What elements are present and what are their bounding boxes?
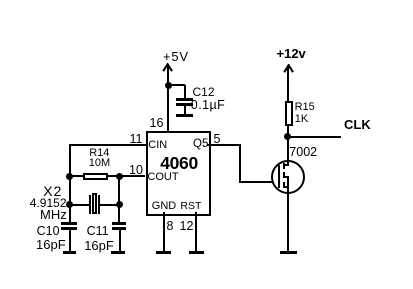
node CLK junction — [284, 133, 291, 140]
pin label COUT — [147, 172, 178, 183]
label 7002 — [289, 146, 317, 159]
pin label CIN — [148, 140, 167, 151]
power label +5V — [163, 50, 189, 63]
pin 5 label — [214, 133, 221, 146]
crystal X2 right plate — [98, 195, 100, 214]
value MHz — [40, 208, 67, 221]
label C11 — [87, 225, 109, 238]
wire crystal row right — [100, 204, 120, 206]
pin 12 label — [180, 220, 194, 233]
resistor R14 — [83, 173, 108, 180]
label C12 — [193, 86, 215, 98]
transistor drain stub — [287, 160, 289, 166]
crystal X2 body — [92, 193, 98, 214]
ground transistor source — [280, 251, 297, 254]
label R15 — [295, 102, 315, 113]
capacitor C12 — [176, 98, 193, 101]
transistor channel bottom dash — [283, 182, 285, 188]
label 4060 — [160, 155, 198, 173]
ground GND pin — [156, 251, 171, 254]
label C10 — [37, 225, 60, 238]
pin label GND — [152, 201, 176, 212]
wire C10 bottom lead — [69, 229, 71, 251]
wire pin 5 vertical — [239, 144, 241, 184]
label R14 — [89, 148, 109, 159]
wire RST pin 12 — [195, 212, 197, 252]
wire pin 10 row — [70, 175, 146, 177]
wire pin 5 horizontal — [207, 144, 241, 146]
wire C12 top lead — [184, 85, 186, 98]
pin 10 label — [129, 164, 143, 177]
value 0.1uF — [191, 99, 225, 112]
node crystal left — [66, 201, 73, 208]
capacitor C10 — [61, 222, 77, 225]
ground C11 — [111, 251, 125, 254]
pin 16 label — [150, 117, 164, 130]
wire junction to C12 — [168, 84, 185, 86]
value 1K — [295, 114, 308, 125]
wire C12 bottom lead — [184, 105, 186, 115]
value 4.9152 — [30, 197, 67, 209]
crystal X2 left plate — [89, 195, 91, 214]
wire +5V to pin 16 — [167, 65, 169, 132]
wire source to ground — [287, 176, 289, 251]
pin label RST — [180, 201, 201, 212]
transistor channel middle dash — [283, 172, 285, 178]
label CLK — [344, 118, 371, 131]
transistor gate bar — [278, 165, 280, 189]
resistor R15 — [285, 101, 293, 127]
power arrow +5V — [162, 63, 173, 73]
node R14 right — [116, 173, 123, 180]
value 10M — [89, 158, 110, 169]
value 16pF C10 — [36, 238, 66, 251]
ground C10 — [63, 251, 77, 254]
wire +12v to R15 — [287, 65, 289, 101]
wire pin 11 — [69, 144, 146, 146]
transistor channel top dash — [283, 163, 285, 169]
ground RST pin — [189, 251, 204, 254]
power arrow +12v — [283, 64, 294, 74]
wire R15 to drain — [287, 126, 289, 161]
pin 8 label — [167, 220, 174, 233]
node junction +5V/C12 — [165, 82, 172, 89]
pin label Q5 — [193, 139, 208, 151]
wire C11 bottom lead — [119, 229, 121, 251]
wire gate lead — [239, 181, 281, 183]
transistor source foot — [283, 186, 289, 188]
transistor drain jog — [283, 164, 289, 166]
transistor body foot — [283, 176, 289, 178]
pin 11 label — [130, 133, 143, 146]
node crystal right — [116, 201, 123, 208]
label X2 — [43, 184, 62, 198]
capacitor C11 — [112, 222, 127, 225]
transistor Q1 7002 body circle — [271, 160, 305, 194]
ground C12 — [176, 114, 193, 117]
wire CLK — [288, 136, 341, 138]
value 16pF C11 — [84, 239, 114, 252]
wire crystal row left — [70, 204, 89, 206]
node R14 left — [66, 173, 73, 180]
wire right column — [118, 176, 120, 224]
power label +12v — [277, 47, 306, 60]
wire GND pin 8 — [163, 212, 165, 252]
wire left column — [69, 144, 71, 224]
IC U1 4060 body — [146, 131, 211, 216]
